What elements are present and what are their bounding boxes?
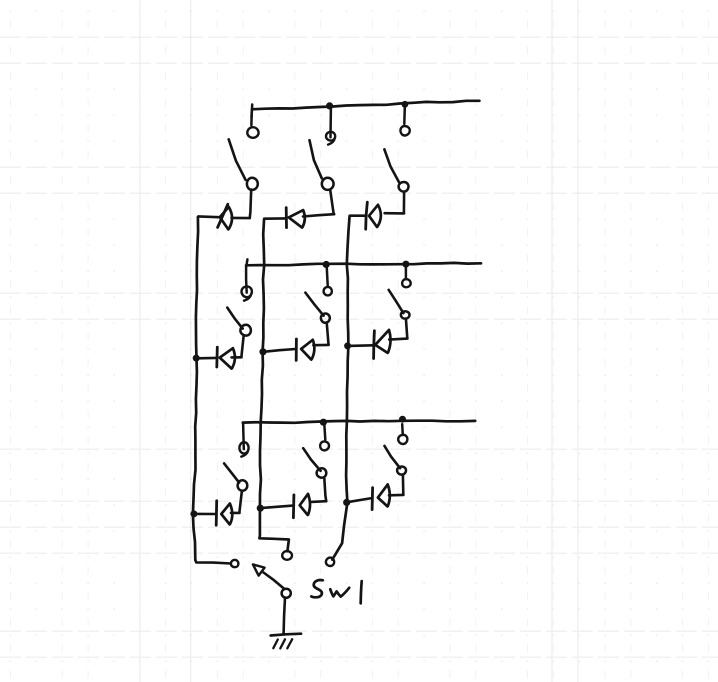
diode D21 cathode wire	[264, 217, 285, 220]
diode D11 cathode bar	[218, 204, 228, 227]
diode D22 anode wire	[313, 344, 328, 347]
switch S21 fixed terminal circle	[326, 132, 335, 145]
diode D12 cathode bar	[215, 347, 218, 367]
selector Sw1 throw wire from bus A	[195, 560, 231, 564]
diode D31 cathode bar	[366, 202, 368, 229]
node J1a on row 1	[326, 102, 333, 109]
node J2b on row 2	[402, 261, 409, 268]
diode D12 triangle	[220, 348, 235, 368]
node J1b on row 1	[402, 101, 409, 108]
switch S23 fixed terminal circle	[320, 441, 329, 450]
switch S12 terminal stub tick	[246, 259, 247, 266]
node J2a on row 2	[323, 261, 330, 268]
switch S31 moving contact circle	[399, 182, 409, 192]
switch S31 lever blade	[384, 149, 399, 182]
switch S12 lever blade	[227, 308, 242, 329]
ground symbol	[271, 634, 301, 649]
switch S22 contact down-wire	[327, 322, 329, 344]
switch S12 fixed terminal circle	[242, 286, 252, 300]
diode D23 anode wire	[311, 500, 326, 503]
wire row bus 3 (bottom)	[243, 421, 475, 423]
diode D13 cathode wire	[194, 513, 215, 516]
switch S11 contact down-wire	[250, 190, 251, 218]
diode D32 cathode wire	[348, 344, 373, 347]
diode D11 triangle	[220, 207, 232, 230]
switch S32 fixed terminal circle	[402, 279, 411, 287]
switch S23 terminal stub	[323, 425, 326, 439]
diode D21 triangle	[289, 210, 305, 228]
diode D31 anode wire	[385, 212, 404, 215]
switch S11 terminal stub tick	[250, 105, 253, 118]
switch S32 moving contact circle	[401, 311, 410, 319]
selector Sw1 pivot circle	[282, 589, 291, 598]
switch S21 contact down-wire	[330, 190, 333, 214]
switch S32 terminal stub	[405, 267, 408, 279]
switch S33 terminal stub	[401, 424, 404, 435]
switch S12 contact down-wire	[241, 336, 243, 357]
switch S22 terminal stub	[326, 268, 329, 286]
diode D11 cathode wire	[198, 215, 219, 218]
switch S13 fixed terminal circle	[239, 442, 248, 457]
diode D31 cathode wire	[350, 214, 365, 217]
diode D12 anode wire	[232, 356, 242, 359]
switch S21 moving contact circle	[322, 178, 334, 190]
switch S11 lever blade	[229, 139, 246, 180]
node A3 (bus A / diode D13)	[190, 510, 197, 517]
switch S23 lever blade	[303, 448, 320, 471]
switch S13 lever blade	[224, 463, 239, 482]
switch S12 terminal stub	[245, 266, 248, 292]
switch S13 moving contact circle	[238, 480, 248, 491]
diode D31 triangle	[369, 205, 381, 227]
diode D33 cathode wire	[347, 498, 371, 502]
node C2 (bus C / diode D32)	[344, 342, 351, 349]
diode D13 cathode bar	[215, 501, 218, 525]
switch S21 terminal stub	[329, 108, 332, 137]
switch S11 moving contact circle	[247, 178, 258, 190]
switch S33 fixed terminal circle	[398, 435, 407, 444]
diode D23 cathode bar	[292, 495, 295, 518]
node A2 (bus A / diode D12)	[193, 355, 200, 362]
switch S33 contact down-wire	[402, 475, 405, 495]
diode D12 cathode wire	[198, 357, 217, 360]
switch S11 fixed terminal circle	[247, 127, 258, 138]
diode D22 cathode wire	[263, 349, 295, 352]
switch S11 terminal stub	[250, 112, 253, 125]
switch S23 contact down-wire	[324, 478, 326, 501]
switch S12 moving contact circle	[240, 325, 251, 336]
node B3 (bus B / diode D23)	[257, 505, 264, 512]
diode D13 triangle	[221, 504, 232, 525]
wire pivot to ground	[284, 598, 285, 633]
diode D22 triangle	[301, 340, 314, 360]
switch S33 moving contact circle	[397, 467, 406, 475]
diode D33 cathode bar	[371, 488, 374, 510]
wire row bus 2 (middle)	[246, 263, 481, 265]
diode D21 anode wire	[303, 214, 334, 216]
switch S22 fixed terminal circle	[324, 287, 332, 296]
switch S13 contact down-wire	[239, 491, 242, 513]
selector Sw1 throw contact 1 circle	[231, 560, 239, 567]
wire column bus A (left)	[193, 217, 198, 560]
node C3 (bus C / diode D33)	[343, 499, 350, 506]
diode D32 anode wire	[389, 339, 407, 340]
wire column bus B (middle)	[259, 219, 289, 551]
switch S31 fixed terminal circle	[400, 126, 409, 136]
diode D32 triangle	[375, 330, 390, 353]
diode D33 anode wire	[389, 494, 403, 497]
diode D11 anode wire	[232, 217, 250, 220]
diode D23 cathode wire	[261, 506, 293, 509]
diode D33 triangle	[378, 484, 390, 506]
node J3b on row 3	[399, 416, 406, 423]
diode D22 cathode bar	[295, 339, 298, 360]
selector Sw1 wiper arrowhead	[253, 564, 265, 575]
switch S23 moving contact circle	[317, 468, 327, 478]
wire row bus 1 (top)	[252, 101, 480, 110]
switch S32 contact down-wire	[406, 319, 407, 339]
selector Sw1 throw contact 2 circle	[282, 551, 292, 560]
label "Sw 1"	[311, 580, 361, 603]
node J3a on row 3	[320, 419, 327, 426]
selector Sw1 wiper arm	[264, 573, 285, 589]
diode D21 cathode bar	[285, 208, 288, 228]
switch S33 lever blade	[385, 446, 401, 468]
diode D13 anode wire	[231, 512, 240, 515]
switch S31 contact down-wire	[403, 192, 406, 213]
switch S22 lever blade	[305, 293, 323, 316]
node B2 (bus B / diode D22)	[259, 348, 266, 355]
switch S31 terminal stub	[403, 107, 406, 124]
selector Sw1 throw contact 3 circle	[326, 558, 334, 566]
switch S22 moving contact circle	[321, 314, 330, 323]
switch S32 lever blade	[389, 290, 404, 313]
switch S13 terminal stub	[242, 423, 245, 449]
diode D32 cathode bar	[372, 331, 376, 359]
switch S21 lever blade	[310, 140, 322, 178]
diode D23 triangle	[300, 494, 310, 515]
wire column bus C (right)	[332, 216, 349, 560]
